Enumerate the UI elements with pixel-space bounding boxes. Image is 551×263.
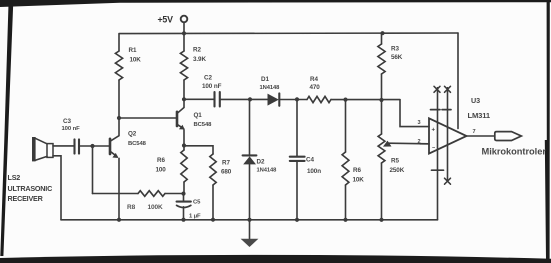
svg-text:U3: U3: [471, 96, 480, 105]
svg-text:1N4148: 1N4148: [260, 85, 281, 91]
wire speaker top terminal to C3: [53, 145, 74, 147]
ground symbol: [249, 221, 251, 239]
svg-text:250K: 250K: [390, 167, 405, 174]
output connector Mikrokontroler: [495, 132, 522, 141]
wire D1 to R4: [280, 99, 307, 101]
resistor R4 470: [307, 96, 331, 102]
U3 output wire pin7: [467, 135, 495, 137]
resistor R3 56K: [381, 33, 383, 44]
svg-text:1 µF: 1 µF: [189, 213, 201, 219]
R5 wiper arrow: [389, 142, 430, 145]
svg-text:1N4148: 1N4148: [257, 168, 278, 174]
svg-text:ULTRASONIC: ULTRASONIC: [8, 184, 53, 193]
svg-text:R7: R7: [222, 160, 230, 167]
svg-text:R6: R6: [157, 157, 165, 164]
resistor R7 680: [210, 154, 216, 185]
wire emitter node to R7: [184, 146, 213, 154]
resistor R6 10K: [345, 100, 347, 152]
border frame top: [0, 0, 551, 7]
svg-text:C4: C4: [306, 156, 314, 163]
resistor R8 100K: [138, 191, 165, 197]
svg-text:C2: C2: [204, 75, 212, 82]
svg-text:10K: 10K: [130, 57, 142, 64]
+5V rail wire: [119, 32, 458, 35]
svg-text:3.9K: 3.9K: [193, 56, 206, 63]
wire node to C4: [296, 99, 298, 156]
speaker LS2 ultrasonic receiver: [33, 138, 35, 161]
svg-text:100K: 100K: [148, 204, 164, 211]
svg-text:Q2: Q2: [128, 130, 137, 137]
svg-text:C3: C3: [63, 118, 71, 125]
capacitor C2 100nF: [213, 92, 215, 107]
wire node to U3 pin3: [400, 100, 429, 127]
capacitor C3 100nF: [73, 139, 75, 153]
svg-text:BC548: BC548: [194, 122, 213, 128]
svg-text:C5: C5: [193, 199, 201, 205]
op-amp U3 LM311: [429, 118, 467, 153]
svg-text:Mikrokontroler: Mikrokontroler: [482, 146, 547, 156]
wire rail to U3 pin1: [437, 88, 439, 220]
wire R4 to node: [331, 99, 400, 101]
svg-text:7: 7: [473, 129, 476, 135]
svg-text:2: 2: [418, 139, 421, 145]
svg-text:+: +: [432, 128, 436, 134]
svg-text:100n: 100n: [307, 168, 321, 175]
svg-text:RECEIVER: RECEIVER: [8, 194, 44, 203]
capacitor C5 1uF: [183, 194, 185, 202]
svg-text:D2: D2: [257, 158, 265, 165]
svg-text:R6: R6: [353, 167, 361, 174]
diode D1 1N4148: [268, 94, 279, 106]
svg-text:100: 100: [156, 167, 167, 174]
wire Q1 collector node to C2: [184, 98, 214, 100]
wire Q2 base node down to R8: [92, 146, 94, 194]
+5V terminal: [181, 16, 188, 23]
wire V+ to U3 pin8: [457, 33, 459, 129]
svg-text:LM311: LM311: [468, 111, 491, 120]
U3 balance pin 6 line with X: [447, 88, 449, 181]
transistor Q1 BC548: [176, 112, 179, 126]
capacitor C4 100n: [290, 156, 305, 158]
svg-text:D1: D1: [261, 76, 269, 83]
svg-text:R1: R1: [129, 47, 137, 54]
wire node to D2: [249, 99, 251, 155]
resistor R2 3.9K: [183, 33, 185, 51]
svg-text:680: 680: [221, 169, 232, 176]
ground rail wire: [61, 219, 438, 221]
border frame right: [545, 1, 550, 259]
border frame left: [0, 4, 13, 256]
resistor R1 10K: [118, 34, 120, 51]
svg-text:+5V: +5V: [158, 14, 174, 24]
transistor Q2 BC548: [109, 139, 112, 154]
diode D2 1N4148: [243, 154, 257, 156]
svg-text:R3: R3: [391, 46, 399, 53]
svg-text:LS2: LS2: [8, 173, 21, 182]
border frame bottom: [0, 255, 551, 263]
potentiometer R5 250K: [381, 100, 383, 134]
svg-text:100 nF: 100 nF: [202, 83, 222, 90]
resistor R6 100: [181, 150, 187, 182]
svg-text:56K: 56K: [391, 54, 403, 61]
svg-text:470: 470: [310, 84, 321, 91]
svg-text:BC548: BC548: [128, 141, 147, 147]
pin tick marks: [431, 109, 452, 111]
svg-text:R8: R8: [127, 204, 136, 211]
wire C2 to D1: [220, 98, 267, 100]
svg-text:Q1: Q1: [194, 112, 203, 119]
U3 pin2 wire (inverting): [420, 143, 429, 145]
wire C3 to Q2 base node: [80, 145, 93, 147]
svg-text:R4: R4: [310, 76, 318, 83]
svg-text:−: −: [432, 146, 435, 152]
U3 balance pin 5 X: [434, 86, 440, 92]
svg-text:R5: R5: [391, 158, 399, 165]
wire Q1 emitter node: [183, 146, 185, 151]
svg-text:100 nF: 100 nF: [62, 126, 81, 132]
svg-text:R2: R2: [193, 47, 201, 54]
svg-text:3: 3: [418, 120, 421, 126]
wire speaker bottom terminal down: [53, 156, 61, 220]
svg-text:10K: 10K: [353, 176, 365, 183]
